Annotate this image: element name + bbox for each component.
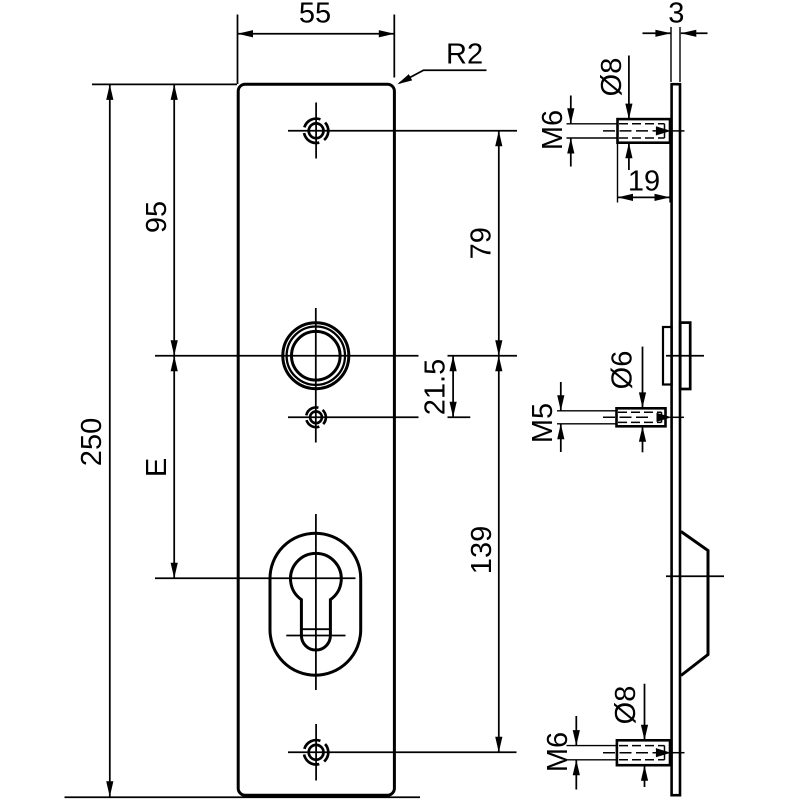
stud S1 thread line top [619,123,665,125]
stud S2 centerline across plate [670,416,684,418]
dim Ø6 arrow lower [639,426,646,442]
dim 55 left extension line [237,15,239,85]
label R2 arrow [397,74,412,84]
stud S3 dashed centerline [603,752,657,754]
stud S2 dashed centerline [603,416,652,418]
svg-text:M6: M6 [542,732,574,772]
dim 250 bottom extension line [65,796,421,798]
keyhole inner line [302,628,330,630]
dim 21.5 top arrow [450,356,457,372]
dim 79 line [498,131,500,356]
dim Ø8 top arrow upper [625,104,632,120]
euro cylinder oval [270,533,361,675]
cylinder bump centerline [666,575,724,577]
stud S1 centerline arrow [656,126,671,135]
hole H1 top screw thread arc [300,115,332,147]
svg-text:Ø6: Ø6 [607,351,639,390]
hole H4 bottom screw crosshair vertical [315,724,317,781]
dim 21.5 line [452,356,454,418]
hole H2 handle outer circle [283,323,349,389]
dim 79 top arrow [495,131,502,147]
svg-text:19: 19 [628,166,660,198]
dim M6 top ext line upper [567,123,618,125]
dim 79 bottom arrow [495,340,502,356]
stud S3 thread line top [619,745,665,747]
dim M5 arrow upper [557,395,564,411]
dim Ø8 bottom line above [644,684,646,741]
dim M5 ext line lower [557,423,617,425]
hole H4 bottom screw inner circle [309,745,324,760]
svg-text:E: E [141,458,173,477]
dim Ø8 bottom arrow lower [641,765,648,781]
euro cylinder oval crosshair vertical [315,514,317,690]
label R2 leader [400,70,487,83]
svg-text:79: 79 [466,227,498,259]
handle hub back box [663,327,672,385]
stud S3 centerline across plate [670,752,685,754]
dim 55 left arrow [238,30,254,37]
dim M6 bottom arrow lower [573,760,580,776]
hole H1 top screw centerline horizontal [288,130,517,132]
side view plate [672,84,680,795]
svg-text:21.5: 21.5 [420,359,452,415]
dim 3 right line [681,32,708,34]
hole H2 handle crosshair vertical [315,308,317,443]
dim 55 right extension line [393,15,395,78]
svg-text:R2: R2 [446,39,483,71]
svg-text:Ø8: Ø8 [596,58,628,97]
dim 3 left arrow [655,30,671,37]
dim 3 right extension line [679,27,681,82]
hole H2 handle inner circle [292,331,341,380]
dim M6 top arrow upper [567,108,574,124]
plate front view outline [238,84,394,795]
svg-text:M5: M5 [527,403,559,443]
dim 19 left ext line [617,144,619,203]
dim 95 top arrow [171,84,178,100]
hole H2 handle middle circle [287,327,345,385]
hole H1 top screw crosshair vertical [315,103,317,159]
dim Ø8 bottom line below [644,765,646,787]
dim 250 top extension line [92,83,237,85]
stud S3 thread line bottom [619,759,665,761]
hole H3 small screw centerline horizontal right [448,416,471,418]
dim Ø6 arrow upper [639,392,646,408]
dim 21.5 bottom arrow [450,402,457,418]
stud S2 middle M5 body [617,408,666,426]
svg-text:95: 95 [141,201,173,233]
dim 250 line [109,84,111,796]
hole H4 bottom screw centerline horizontal [288,751,517,753]
dim 55 line [238,33,395,35]
hole H2 handle centerline horizontal [155,355,419,357]
dim M6 bottom arrow upper [573,730,580,746]
dim M6 top line above [570,96,572,124]
dim 250 bottom arrow [106,781,113,797]
dim 3 right arrow [681,30,697,37]
svg-text:M6: M6 [537,110,569,150]
dim Ø6 line above [642,347,644,408]
euro cylinder centerline horizontal [155,577,356,579]
dim Ø8 top arrow lower [625,143,632,159]
stud S2 thread end line [661,412,663,422]
cylinder bump profile [681,532,708,676]
dim Ø6 line below [642,426,644,452]
stud S3 bottom M6 body [617,740,670,765]
euro profile keyhole [291,553,342,650]
dim 55 right arrow [379,30,395,37]
handle hub front box [680,323,690,389]
stud S1 thread end line [664,124,666,138]
stud S1 dashed centerline [603,130,657,132]
dim E line [173,356,175,579]
dim M5 arrow lower [557,424,564,440]
stud S1 thread line bottom [619,137,665,139]
dim M6 bottom line below [575,760,577,790]
dim M5 line below [560,424,562,452]
dim E bottom arrow [171,563,178,579]
dim 95 bottom arrow [171,340,178,356]
handle hub centerline [666,355,704,357]
dim M6 top arrow lower [567,138,574,154]
dim 19 line [618,196,671,198]
dim E top arrow [171,356,178,372]
dim M5 line above [560,382,562,411]
stud S2 thread line bottom [618,421,662,423]
dim M5 ext line upper [557,410,617,412]
svg-text:139: 139 [466,526,498,574]
dim 139 top arrow [495,356,502,372]
dim 19 right arrow [655,194,671,201]
dim Ø8 top line below [628,143,630,170]
svg-text:Ø8: Ø8 [610,686,642,725]
dim 95 line [173,84,175,355]
hole H3 small screw centerline horizontal left [288,416,419,418]
svg-text:55: 55 [299,0,331,30]
dim 19 right ext line [669,144,671,203]
hole H4 bottom screw thread arc [300,736,332,768]
svg-text:250: 250 [76,418,108,466]
dim M6 bottom line above [575,716,577,746]
dim M6 bottom ext line lower [567,759,617,761]
dim 250 top arrow [106,84,113,100]
stud S2 centerline arrow [657,413,672,422]
dim 3 left extension line [670,27,672,82]
stud S3 centerline arrow [656,748,671,757]
dim 139 bottom arrow [495,737,502,753]
hole H3 small screw inner circle [310,411,322,423]
dim 19 left arrow [618,194,634,201]
dim 3 left line [643,32,671,34]
stud S3 thread end line [664,746,666,760]
hole H3 small screw thread arc [303,404,329,430]
dim Ø8 top line above [628,56,630,120]
stud S1 centerline across plate [670,130,685,132]
hole H1 top screw inner circle [309,123,324,138]
dim Ø8 bottom arrow upper [641,725,648,741]
stud S2 thread line top [618,411,662,413]
dim M6 top ext line lower [567,137,618,139]
dim 139 line [498,356,500,753]
keyhole bottom-center crosshair [286,635,345,637]
hole H2 handle centerline horizontal right part [448,355,518,357]
dim M6 top line below [570,138,572,167]
svg-text:3: 3 [668,0,684,30]
stud S1 top M6 body [618,119,671,143]
dim M6 bottom ext line upper [567,745,617,747]
